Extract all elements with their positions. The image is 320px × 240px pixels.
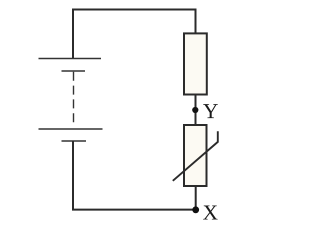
wire: dashed (additional cells indication) <box>73 72 75 126</box>
battery B1 cell2 long plate <box>39 128 103 130</box>
node X junction dot <box>192 206 199 213</box>
wire: thermistor to node X <box>195 186 197 210</box>
thermistor body <box>184 125 207 186</box>
wire: resistor to thermistor through node Y <box>195 95 197 126</box>
wire: top loop from battery positive up and across to resistor <box>73 10 196 59</box>
wire: bottom rail to node X <box>72 209 196 211</box>
battery B1 cell1 long plate <box>39 58 102 60</box>
wire: battery negative down to bottom rail <box>72 141 74 210</box>
resistor R1 <box>184 33 207 94</box>
battery B1 cell1 short plate <box>62 70 86 72</box>
battery B1 cell2 short plate <box>62 140 87 142</box>
label Y <box>203 104 218 118</box>
node Y junction dot <box>192 107 198 113</box>
label X <box>203 206 218 220</box>
thermistor diagonal stroke <box>173 131 218 181</box>
